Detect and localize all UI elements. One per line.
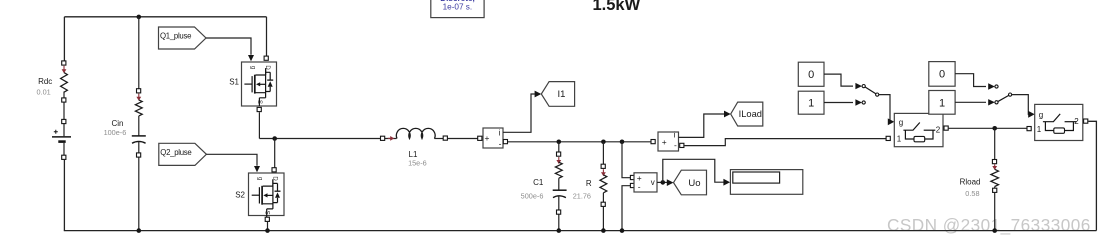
node bottom rail C1 bbox=[557, 228, 562, 233]
svg-text:g: g bbox=[257, 177, 263, 180]
mosfet S1 bbox=[229, 56, 276, 112]
svg-text:500e-6: 500e-6 bbox=[521, 192, 544, 201]
svg-text:1: 1 bbox=[897, 135, 902, 144]
wire Rload drop bbox=[994, 128, 996, 159]
resistor Rload bbox=[960, 160, 999, 199]
wire voltmeter plus drop bbox=[622, 142, 630, 178]
current measurement U1 (i1) bbox=[478, 128, 508, 149]
svg-text:1: 1 bbox=[939, 97, 945, 109]
constant block 1 (set 1) bbox=[798, 91, 824, 114]
wire const1 to switch1 bbox=[824, 99, 862, 105]
svg-text:Rdc: Rdc bbox=[38, 77, 52, 86]
resistor Rdc bbox=[36, 61, 67, 102]
wire top rail drop to S1 drain bbox=[266, 17, 268, 56]
node voltmeter junction bbox=[620, 140, 625, 145]
svg-text:0: 0 bbox=[939, 69, 945, 81]
inductor L1 bbox=[381, 128, 448, 167]
wire L1 to current measurement bbox=[448, 138, 478, 140]
wire breaker1 out to breaker2 bbox=[949, 127, 1027, 129]
wire R to bottom rail bbox=[602, 207, 604, 231]
svg-text:-: - bbox=[674, 140, 677, 150]
node bottom rail Cin bbox=[137, 228, 142, 233]
wire v output to display bbox=[663, 159, 730, 185]
wire Cin to bottom rail bbox=[138, 157, 140, 230]
wire const1 set2 to switch2 bbox=[955, 99, 995, 105]
node v output junction bbox=[661, 180, 666, 185]
node S1-S2 junction bbox=[272, 136, 277, 141]
wire Q1_pluse to S1 gate bbox=[206, 38, 254, 61]
wire const0 to switch1 bbox=[824, 74, 862, 89]
constant block 1 (set 2) bbox=[929, 91, 955, 115]
battery DC source bbox=[52, 119, 71, 159]
constant block 0 (set 2) bbox=[929, 62, 955, 87]
powergui block bbox=[431, 0, 484, 18]
svg-text:S1: S1 bbox=[229, 77, 239, 86]
wire breaker2 to bottom rail bbox=[1088, 121, 1096, 230]
wire Cin branch top bbox=[138, 17, 140, 89]
goto tag ILoad bbox=[731, 102, 763, 126]
svg-text:1: 1 bbox=[808, 98, 814, 110]
wire main after i1 bbox=[508, 141, 651, 143]
wire iLoad signal to goto ILoad bbox=[679, 111, 731, 138]
wire C1 branch drop bbox=[558, 142, 560, 152]
svg-text:Rload: Rload bbox=[960, 178, 981, 187]
title 1.5kW bbox=[593, 0, 641, 14]
current measurement iLoad meter bbox=[651, 130, 684, 151]
svg-text:g: g bbox=[1039, 111, 1043, 120]
wire Q2_pluse to S2 gate bbox=[206, 154, 260, 172]
mosfet S2 bbox=[235, 168, 284, 222]
wire left vertical top bbox=[63, 17, 65, 61]
svg-text:+: + bbox=[485, 133, 490, 143]
svg-text:Cin: Cin bbox=[111, 119, 123, 128]
svg-text:R: R bbox=[586, 179, 592, 188]
svg-text:Uo: Uo bbox=[688, 178, 700, 189]
wire midpoint node horizontal bbox=[259, 138, 396, 140]
wire bottom rail bbox=[64, 230, 1097, 232]
resistor R bbox=[573, 164, 607, 206]
breaker 2 bbox=[1027, 104, 1088, 140]
svg-text:i: i bbox=[674, 130, 676, 139]
svg-text:Q1_pluse: Q1_pluse bbox=[160, 32, 191, 41]
voltage measurement Uo meter bbox=[630, 173, 657, 192]
node bottom rail R bbox=[601, 228, 606, 233]
svg-text:g: g bbox=[249, 66, 255, 69]
wire v output to Uo tag bbox=[657, 179, 674, 186]
svg-text:I1: I1 bbox=[558, 89, 566, 100]
svg-text:S2: S2 bbox=[235, 190, 245, 199]
watermark CSDN bbox=[887, 215, 1091, 235]
node top rail / Cin junction bbox=[137, 15, 142, 20]
wire S2 source to bottom rail bbox=[267, 222, 269, 231]
svg-text:15e-6: 15e-6 bbox=[408, 158, 427, 167]
manual switch 2 bbox=[995, 85, 1012, 104]
svg-text:CSDN @2301_76333006: CSDN @2301_76333006 bbox=[887, 215, 1091, 235]
wire Rdc to battery bbox=[63, 103, 65, 120]
wire switch1 to breaker1 gate bbox=[879, 95, 894, 126]
wire Rload to bottom rail bbox=[994, 192, 996, 230]
node Rload junction bbox=[992, 126, 997, 131]
svg-text:1.5kW: 1.5kW bbox=[593, 0, 641, 14]
node bottom rail S2 bbox=[265, 228, 270, 233]
svg-text:ILoad: ILoad bbox=[739, 109, 762, 119]
wire battery to bottom rail bbox=[63, 160, 65, 231]
wire top rail bbox=[64, 16, 266, 18]
svg-text:1e-07 s.: 1e-07 s. bbox=[443, 3, 473, 12]
wire switch2 to breaker2 gate bbox=[1012, 95, 1035, 118]
display block bbox=[730, 170, 802, 195]
goto tag I1 bbox=[541, 82, 574, 107]
wire R branch drop bbox=[602, 142, 604, 164]
wire voltmeter minus to bottom rail bbox=[622, 186, 630, 231]
wire junction to S2 drain bbox=[274, 139, 276, 168]
constant block 0 (set 1) bbox=[798, 62, 824, 86]
svg-text:Q2_pluse: Q2_pluse bbox=[160, 148, 191, 157]
svg-text:i: i bbox=[499, 128, 501, 137]
svg-text:0.58: 0.58 bbox=[965, 189, 979, 198]
node bottom rail voltmeter bbox=[620, 228, 625, 233]
svg-text:-: - bbox=[499, 139, 502, 149]
svg-text:0.01: 0.01 bbox=[36, 87, 50, 96]
node bottom rail Rload bbox=[992, 228, 997, 233]
manual switch 1 bbox=[862, 85, 879, 105]
svg-text:-: - bbox=[638, 182, 641, 192]
svg-text:0: 0 bbox=[808, 69, 814, 81]
wire S1 source down bbox=[258, 112, 260, 138]
svg-text:C1: C1 bbox=[533, 178, 544, 187]
node C1 junction bbox=[557, 140, 562, 145]
svg-text:100e-6: 100e-6 bbox=[104, 128, 127, 137]
wire i1 signal to goto I1 bbox=[503, 91, 541, 133]
capacitor C1 (series RC branch) bbox=[521, 152, 567, 214]
svg-text:v: v bbox=[651, 178, 655, 187]
svg-text:21.76: 21.76 bbox=[573, 192, 591, 201]
wire C1 to bottom rail bbox=[558, 215, 560, 231]
svg-text:2: 2 bbox=[936, 125, 941, 134]
svg-text:g: g bbox=[899, 118, 903, 127]
svg-text:1: 1 bbox=[1037, 125, 1042, 134]
from tag Q2_pluse bbox=[159, 143, 207, 165]
goto tag Uo bbox=[674, 170, 707, 195]
wire iLoad minus to breaker1 bbox=[685, 139, 887, 146]
svg-text:+: + bbox=[662, 137, 667, 147]
wire const0 set2 to switch2 bbox=[955, 74, 995, 90]
from tag Q1_pluse bbox=[159, 27, 207, 49]
capacitor Cin (series RC branch) bbox=[104, 89, 146, 157]
breaker 1 bbox=[886, 113, 948, 146]
node R junction bbox=[601, 140, 606, 145]
